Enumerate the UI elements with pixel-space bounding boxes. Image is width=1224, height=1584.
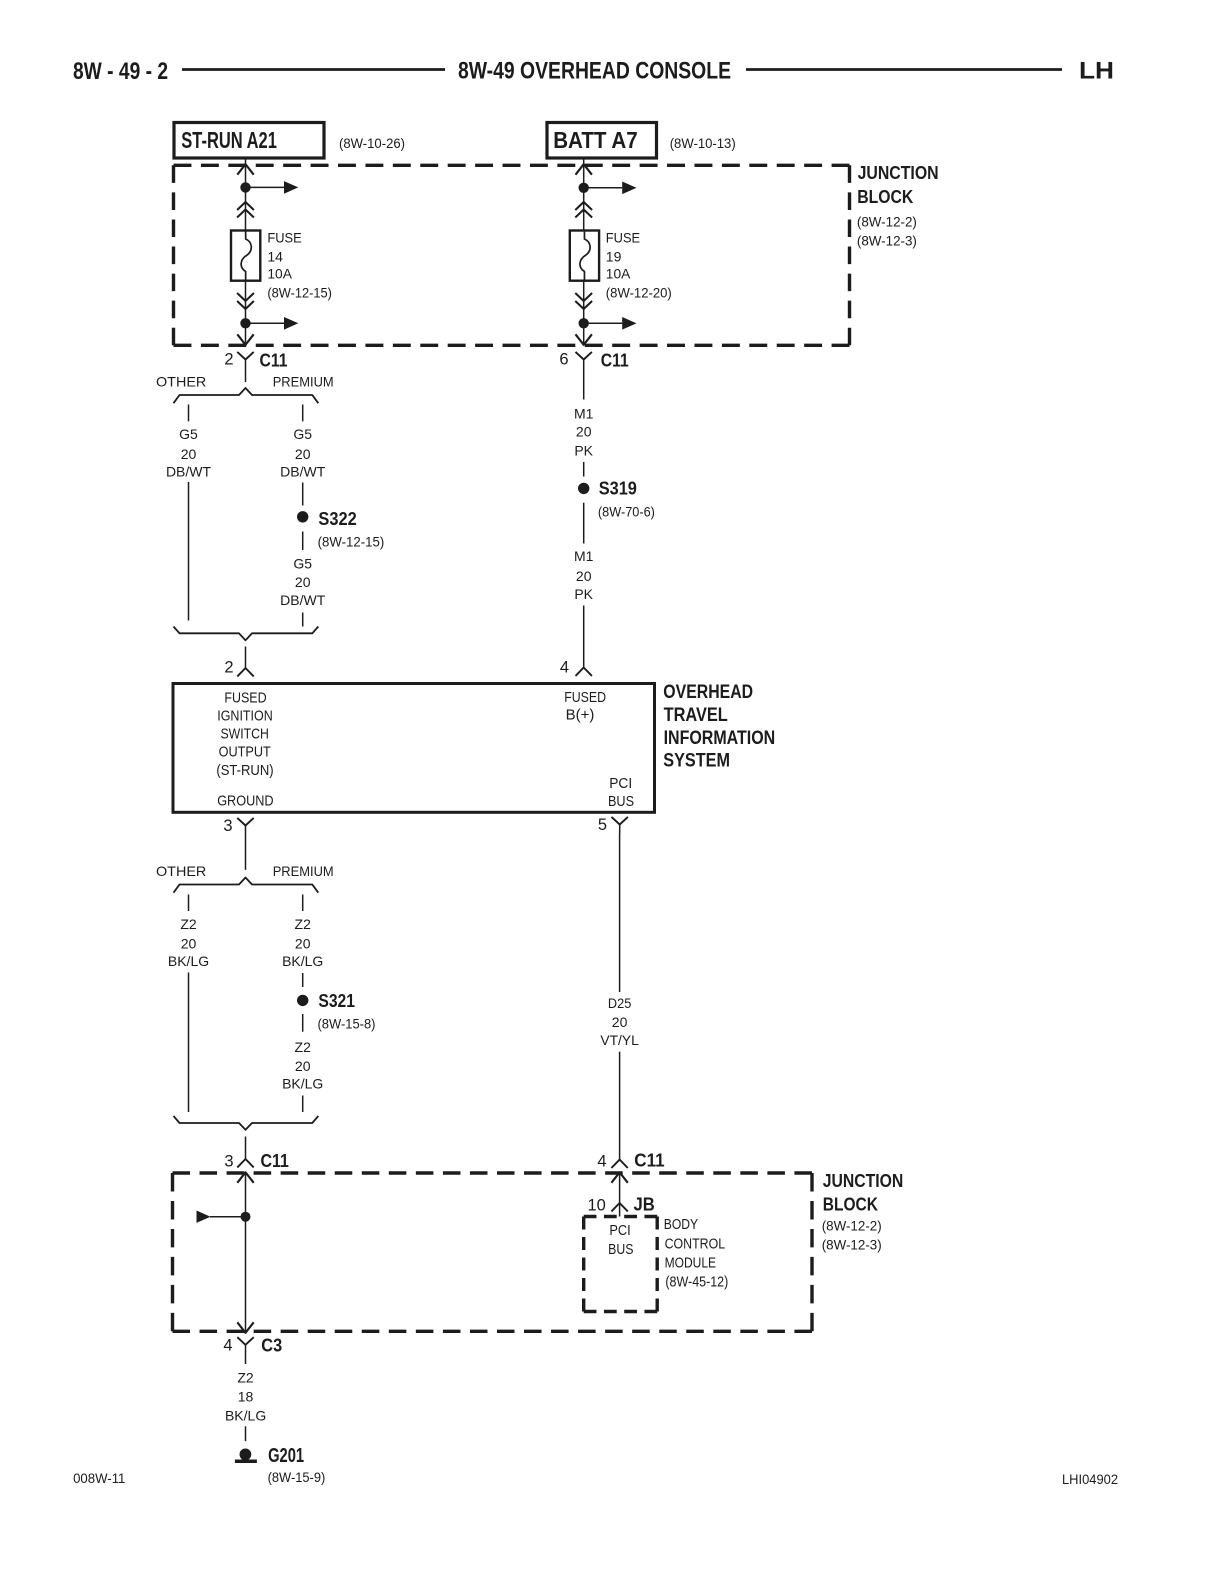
svg-text:3: 3 — [223, 817, 232, 835]
svg-text:(8W-70-6): (8W-70-6) — [598, 504, 655, 520]
svg-text:2: 2 — [224, 351, 233, 369]
svg-text:20: 20 — [295, 1058, 311, 1074]
svg-text:Z2: Z2 — [295, 916, 312, 932]
svg-text:MODULE: MODULE — [665, 1255, 717, 1272]
svg-text:M1: M1 — [574, 548, 594, 564]
svg-text:FUSED: FUSED — [224, 690, 266, 707]
svg-text:20: 20 — [295, 446, 311, 462]
svg-text:FUSE: FUSE — [606, 230, 640, 246]
svg-text:LHI04902: LHI04902 — [1062, 1471, 1118, 1487]
svg-text:(8W-10-13): (8W-10-13) — [670, 135, 736, 151]
svg-text:(8W-12-15): (8W-12-15) — [267, 284, 332, 300]
svg-text:(8W-12-15): (8W-12-15) — [318, 533, 385, 549]
svg-text:Z2: Z2 — [237, 1369, 254, 1385]
svg-text:PK: PK — [574, 443, 593, 459]
svg-text:19: 19 — [606, 249, 622, 265]
svg-text:10: 10 — [587, 1197, 605, 1215]
svg-text:4: 4 — [560, 659, 569, 677]
svg-text:PCI: PCI — [609, 1222, 630, 1239]
svg-text:OTHER: OTHER — [156, 863, 206, 879]
svg-text:20: 20 — [181, 935, 197, 951]
svg-text:BLOCK: BLOCK — [857, 187, 913, 207]
svg-text:2: 2 — [224, 659, 233, 677]
svg-text:M1: M1 — [574, 405, 594, 421]
svg-text:FUSED: FUSED — [564, 689, 606, 706]
svg-text:20: 20 — [612, 1014, 628, 1030]
svg-text:BK/LG: BK/LG — [225, 1408, 266, 1424]
svg-text:(8W-10-26): (8W-10-26) — [339, 135, 405, 151]
svg-text:18: 18 — [238, 1389, 254, 1405]
svg-text:TRAVEL: TRAVEL — [664, 705, 729, 726]
svg-text:C11: C11 — [260, 351, 288, 371]
svg-text:008W-11: 008W-11 — [73, 1470, 126, 1486]
svg-text:4: 4 — [223, 1337, 232, 1355]
svg-text:JUNCTION: JUNCTION — [858, 163, 939, 183]
svg-text:C11: C11 — [261, 1151, 289, 1171]
svg-text:JB: JB — [634, 1195, 655, 1215]
svg-text:ST-RUN A21: ST-RUN A21 — [181, 127, 277, 153]
svg-text:VT/YL: VT/YL — [600, 1032, 639, 1048]
svg-text:SYSTEM: SYSTEM — [663, 751, 730, 772]
svg-text:4: 4 — [597, 1153, 606, 1171]
svg-text:BK/LG: BK/LG — [282, 1076, 323, 1092]
svg-text:C11: C11 — [634, 1151, 664, 1171]
svg-text:BK/LG: BK/LG — [168, 953, 209, 969]
svg-text:OUTPUT: OUTPUT — [219, 744, 271, 761]
svg-text:JUNCTION: JUNCTION — [823, 1171, 904, 1191]
svg-text:10A: 10A — [267, 266, 292, 282]
svg-text:8W - 49 - 2: 8W - 49 - 2 — [73, 58, 168, 85]
svg-text:DB/WT: DB/WT — [280, 463, 326, 479]
svg-text:PREMIUM: PREMIUM — [273, 863, 334, 879]
svg-text:BUS: BUS — [608, 1241, 633, 1258]
svg-text:SWITCH: SWITCH — [221, 725, 269, 742]
svg-text:PK: PK — [574, 586, 593, 602]
svg-text:CONTROL: CONTROL — [665, 1236, 726, 1253]
svg-text:(8W-12-2): (8W-12-2) — [822, 1218, 882, 1234]
svg-text:(8W-12-2): (8W-12-2) — [857, 214, 917, 230]
svg-text:20: 20 — [181, 446, 197, 462]
svg-text:Z2: Z2 — [295, 1039, 312, 1055]
svg-text:6: 6 — [559, 351, 568, 369]
svg-text:BK/LG: BK/LG — [282, 953, 323, 969]
svg-text:D25: D25 — [608, 995, 632, 1011]
svg-text:OTHER: OTHER — [156, 374, 206, 390]
svg-text:G5: G5 — [179, 426, 198, 442]
svg-text:20: 20 — [295, 574, 311, 590]
svg-text:BUS: BUS — [608, 793, 634, 810]
svg-text:LH: LH — [1079, 58, 1114, 85]
svg-text:BATT A7: BATT A7 — [553, 127, 638, 153]
svg-text:8W-49 OVERHEAD CONSOLE: 8W-49 OVERHEAD CONSOLE — [458, 58, 731, 85]
svg-text:BLOCK: BLOCK — [823, 1195, 878, 1215]
svg-text:S321: S321 — [318, 991, 355, 1011]
svg-text:S319: S319 — [599, 479, 637, 499]
svg-text:(8W-12-3): (8W-12-3) — [857, 233, 917, 249]
svg-text:S322: S322 — [318, 509, 356, 529]
svg-text:20: 20 — [576, 568, 592, 584]
svg-text:BODY: BODY — [664, 1216, 698, 1233]
svg-text:C3: C3 — [261, 1336, 282, 1356]
svg-text:(ST-RUN): (ST-RUN) — [216, 762, 273, 779]
svg-text:FUSE: FUSE — [267, 230, 301, 246]
svg-text:DB/WT: DB/WT — [166, 463, 212, 479]
svg-text:B(+): B(+) — [566, 707, 595, 724]
svg-text:(8W-15-9): (8W-15-9) — [268, 1469, 326, 1485]
svg-text:20: 20 — [576, 424, 592, 440]
svg-text:C11: C11 — [601, 351, 629, 371]
svg-text:Z2: Z2 — [180, 916, 197, 932]
svg-text:10A: 10A — [606, 266, 631, 282]
svg-text:(8W-45-12): (8W-45-12) — [665, 1274, 728, 1291]
svg-text:5: 5 — [598, 816, 607, 834]
svg-text:20: 20 — [295, 935, 311, 951]
svg-text:OVERHEAD: OVERHEAD — [663, 682, 753, 703]
svg-text:IGNITION: IGNITION — [217, 707, 273, 724]
svg-text:INFORMATION: INFORMATION — [664, 728, 776, 749]
svg-text:(8W-15-8): (8W-15-8) — [318, 1016, 376, 1032]
svg-text:G5: G5 — [293, 426, 312, 442]
svg-text:PREMIUM: PREMIUM — [273, 374, 334, 390]
svg-text:DB/WT: DB/WT — [280, 592, 326, 608]
svg-text:PCI: PCI — [609, 775, 632, 792]
svg-text:3: 3 — [224, 1153, 233, 1171]
svg-text:(8W-12-3): (8W-12-3) — [822, 1237, 882, 1253]
svg-text:G5: G5 — [293, 556, 312, 572]
svg-text:G201: G201 — [268, 1444, 304, 1467]
svg-text:14: 14 — [267, 249, 283, 265]
svg-text:(8W-12-20): (8W-12-20) — [606, 284, 672, 300]
svg-text:GROUND: GROUND — [217, 793, 274, 810]
